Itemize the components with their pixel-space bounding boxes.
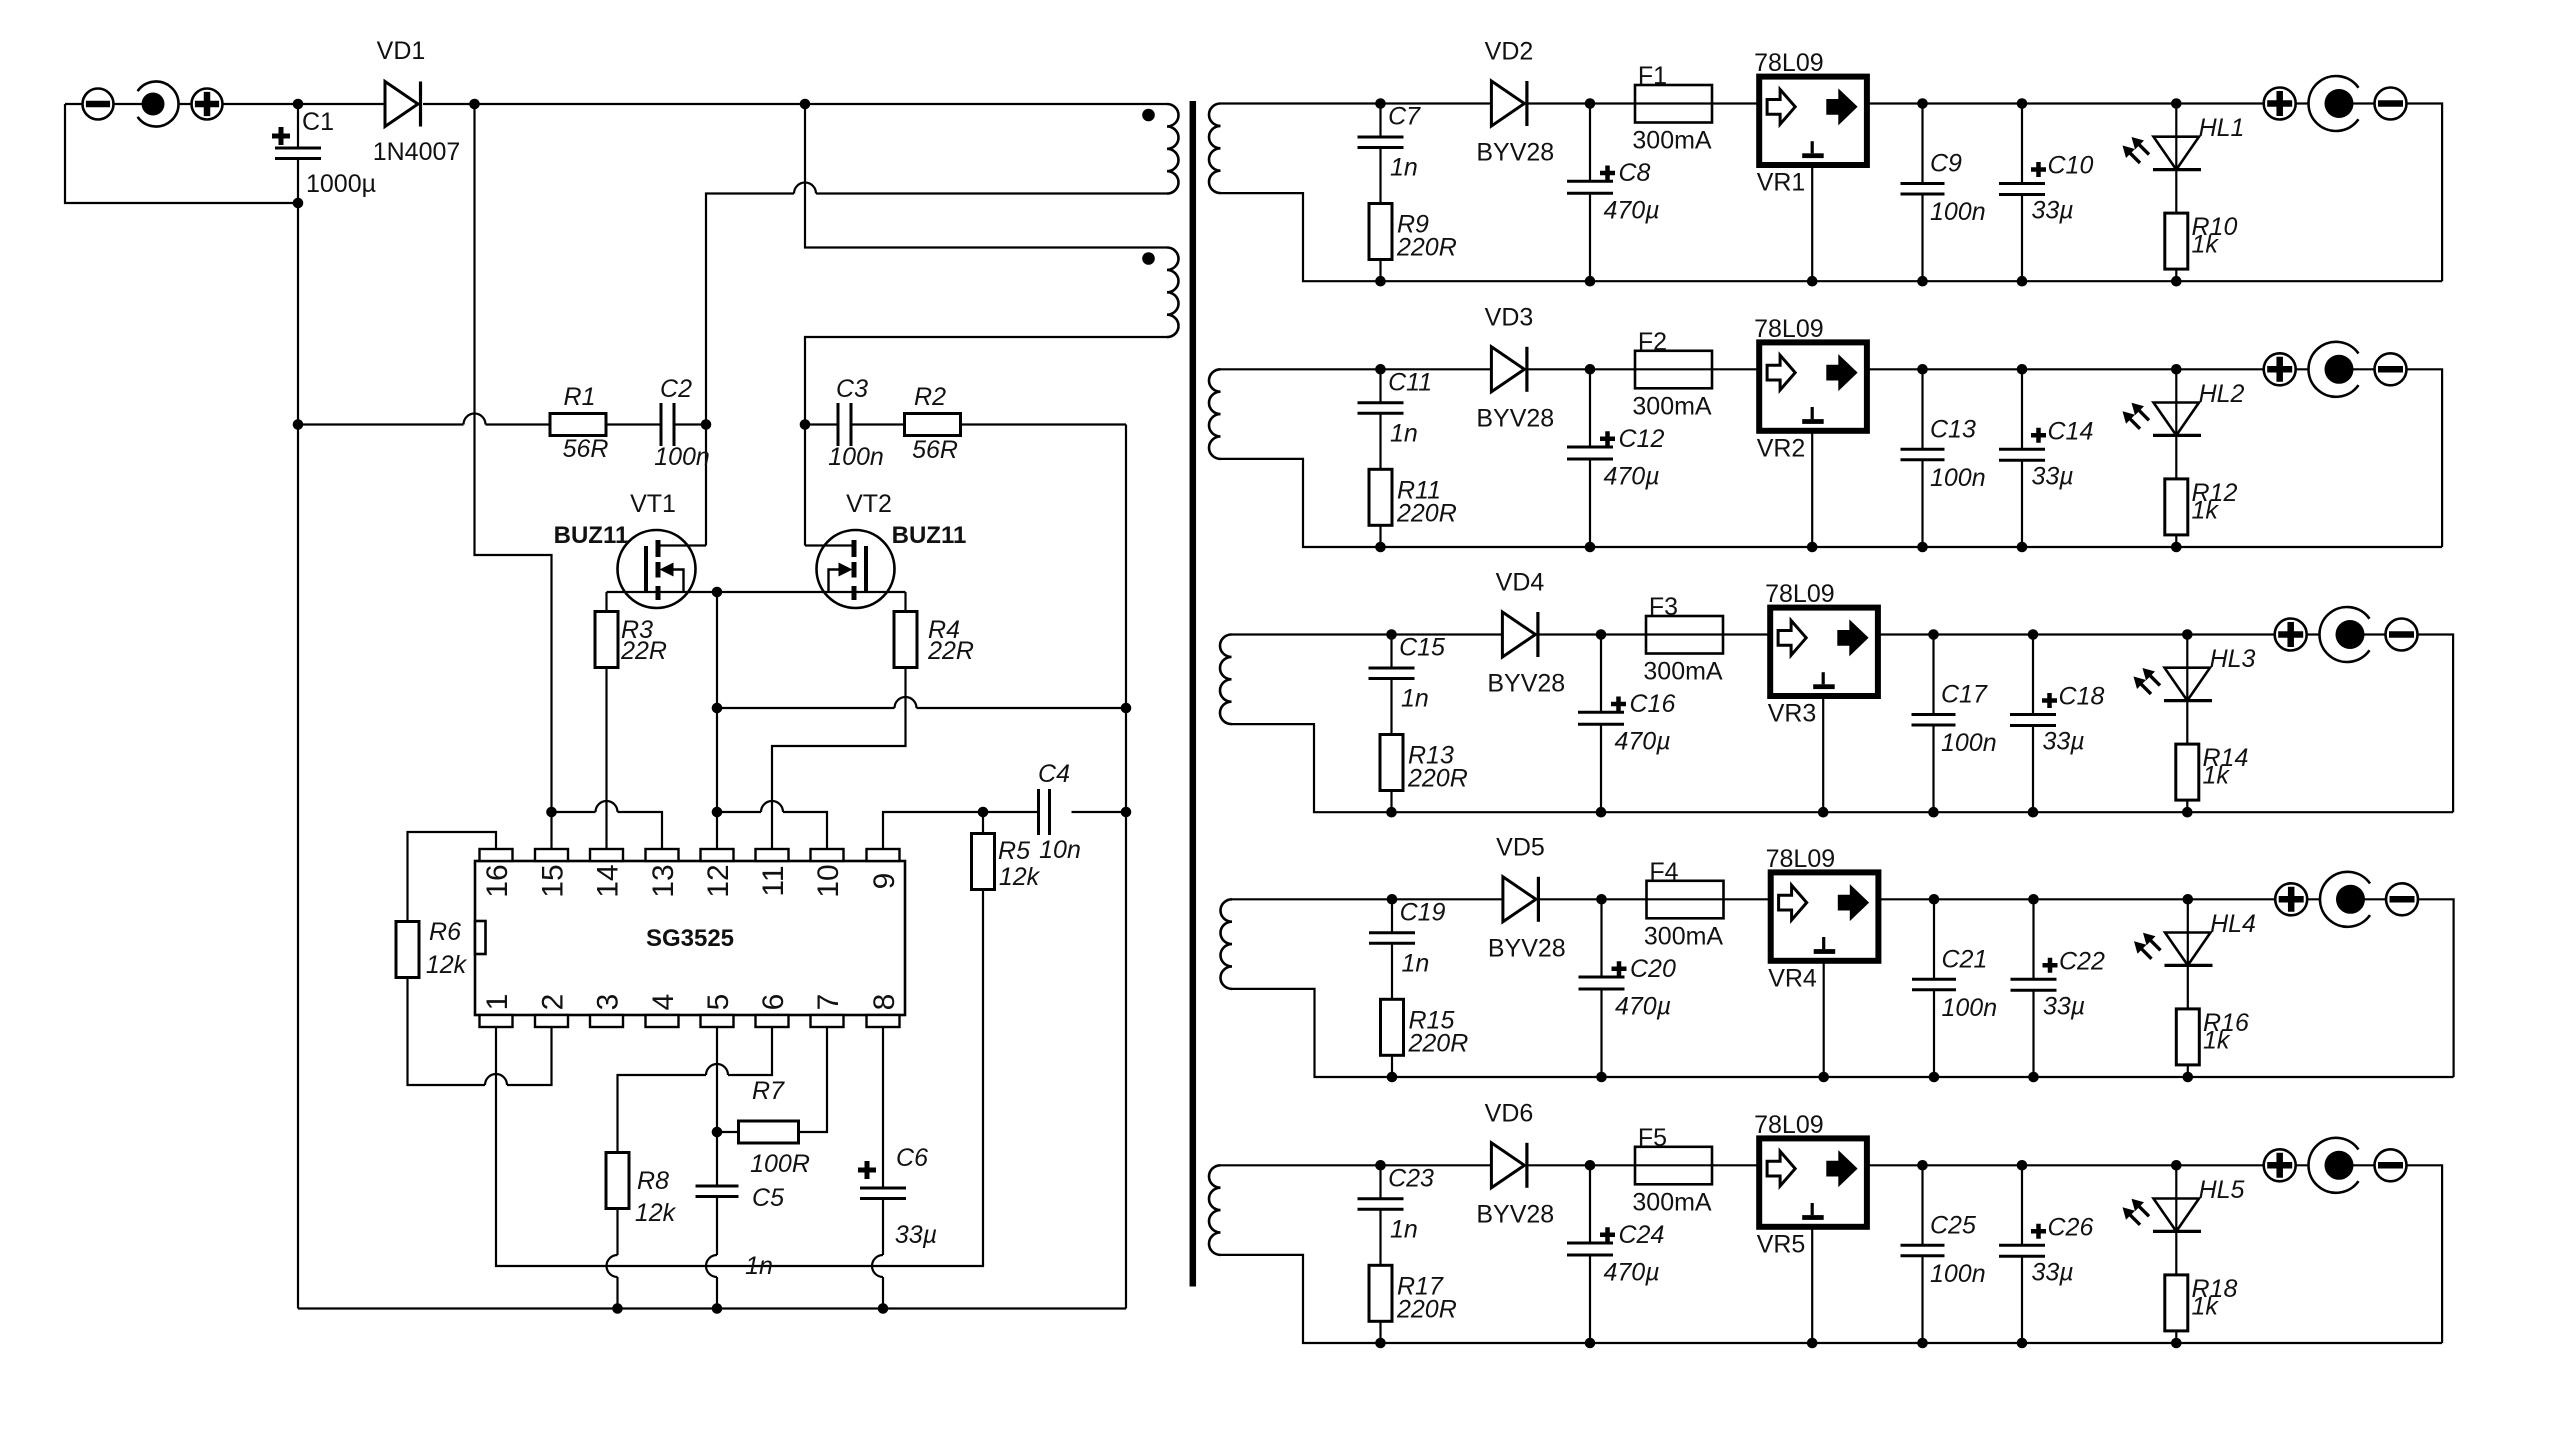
LED HL5 [2175,1165,2177,1275]
svg-text:1k: 1k [2192,496,2220,524]
svg-text:3: 3 [592,994,625,1011]
wire C3 to VT2 drain node [805,423,1126,425]
connector output 2 barrel [2308,342,2358,397]
IC notch [475,921,486,954]
fuse F4 300mA [1647,881,1724,919]
node HL1 top [2171,98,2182,109]
wire R4 to pin 11 [772,668,906,850]
svg-text:78L09: 78L09 [1766,845,1836,873]
svg-text:10n: 10n [1039,836,1081,864]
node C14 top [2017,364,2028,375]
svg-text:C26: C26 [2048,1213,2094,1241]
capacitor C2 100n [661,403,674,446]
svg-text:2: 2 [537,994,570,1011]
svg-text:300mA: 300mA [1643,658,1723,686]
svg-text:470µ: 470µ [1604,1258,1660,1286]
wire R10 bottom [2175,269,2177,281]
capacitor C16 470u [1600,635,1602,813]
resistor R8 12k [606,1153,629,1209]
phase dot primary 1 [1142,109,1155,122]
hop R6 wire over pin1 lead [485,1074,507,1085]
wire R3 to pin 14 [605,668,607,850]
connector output 1 minus [2375,88,2407,120]
svg-text:C20: C20 [1630,955,1676,983]
transformer T1 secondary winding 4 [1221,899,1233,989]
diode VD2 BYV28 [1491,81,1524,126]
capacitor C9 100n [1921,104,1923,282]
LED HL3 [2186,635,2188,745]
node R17 bottom [1375,1338,1386,1349]
svg-text:1n: 1n [1402,949,1430,977]
connector output 5 plus [2264,1149,2296,1181]
svg-text:56R: 56R [912,436,958,464]
node C21 bottom [1929,1072,1940,1083]
wire R16 bottom [2187,1065,2189,1077]
capacitor C18 33u [2032,635,2034,813]
diode VD3 BYV28 [1491,347,1524,392]
svg-text:F1: F1 [1638,62,1667,90]
svg-text:33µ: 33µ [895,1221,937,1249]
resistor R7 100R [717,1027,827,1132]
node C11 top [1375,364,1386,375]
node C16 top [1596,629,1607,640]
node C22 bottom [2028,1072,2039,1083]
node R16 bottom [2183,1072,2194,1083]
wire channel 3 winding return [1232,724,1392,812]
svg-text:300mA: 300mA [1632,392,1712,420]
connector output 3 barrel [2319,607,2369,662]
capacitor C11 1n [1379,369,1381,469]
svg-text:R5: R5 [998,837,1030,865]
connector X1 barrel jack [138,82,179,127]
svg-text:78L09: 78L09 [1765,580,1835,608]
node VR2 ground [1807,542,1818,553]
capacitor C24 470u [1589,1165,1591,1343]
regulator VR5 78L09 [1759,1138,1867,1226]
hop R8 lead over pin1 wire [607,1255,618,1277]
wire R8 bottom to ground rail [616,1209,618,1309]
svg-text:33µ: 33µ [2043,728,2085,756]
node C10 bottom [2017,276,2028,287]
node C18 bottom [2028,807,2039,818]
svg-text:8: 8 [868,994,901,1011]
svg-text:C17: C17 [1941,681,1988,709]
svg-text:VD3: VD3 [1485,303,1534,331]
connector output 2 minus [2375,353,2407,385]
wire R18 bottom [2175,1331,2177,1343]
wire snubber row left [298,423,706,425]
wire channel 5 top rail [1221,1165,2443,1343]
svg-text:15: 15 [537,864,570,897]
capacitor C17 100n [1932,635,1934,813]
LED HL2 [2175,369,2177,479]
node C14 bottom [2017,542,2028,553]
wire VT2 drain lead [805,544,852,546]
svg-text:33µ: 33µ [2032,1258,2074,1286]
svg-text:HL1: HL1 [2199,114,2245,142]
wire VR1 ground pin [1811,168,1813,282]
wire R11 bottom [1379,525,1381,547]
wire VR2 ground pin [1811,433,1813,547]
wire channel 2 winding return [1221,459,1381,547]
IC top pin stubs [480,849,513,861]
hop C5 lead over pin1 wire [706,1255,717,1277]
resistor R11 220R [1369,469,1392,525]
wire ground to pin12 and pin10 [717,812,827,849]
svg-text:F4: F4 [1649,858,1678,886]
svg-text:R8: R8 [637,1167,669,1195]
svg-text:1n: 1n [1390,419,1418,447]
node R12 bottom [2171,542,2182,553]
node pin15 [546,807,557,818]
capacitor C4 10n [1039,789,1050,835]
IC U1 SG3525 body [475,861,905,1015]
node C17 bottom [1928,807,1939,818]
svg-text:F3: F3 [1649,593,1678,621]
svg-text:SG3525: SG3525 [646,925,734,952]
svg-text:1n: 1n [1390,1215,1418,1243]
node C13 bottom [1917,542,1928,553]
svg-text:220R: 220R [1408,1029,1469,1057]
node R9 bottom [1375,276,1386,287]
svg-text:VR2: VR2 [1757,434,1806,462]
svg-text:1: 1 [481,994,514,1011]
svg-text:78L09: 78L09 [1754,49,1824,77]
svg-text:1k: 1k [2192,1292,2220,1320]
svg-text:VT2: VT2 [846,490,892,518]
transformer T1 primary winding 1 [1167,104,1179,194]
regulator VR3 78L09 [1770,608,1878,696]
resistor R13 220R [1380,735,1403,791]
capacitor C19 1n [1391,899,1393,999]
transformer T1 secondary winding 2 [1209,369,1221,459]
capacitor C7 1n [1379,104,1381,204]
wire ground rail left [297,203,299,1309]
svg-text:VD2: VD2 [1485,38,1534,66]
svg-text:220R: 220R [1396,1295,1457,1323]
node C7 top [1375,98,1386,109]
node C23 top [1375,1160,1386,1171]
node R7 tap [712,1127,723,1138]
svg-text:22R: 22R [927,637,974,665]
diode VD1 1N4007 [385,82,418,127]
node R11 bottom [1375,542,1386,553]
svg-text:470µ: 470µ [1604,197,1660,225]
svg-text:BUZ11: BUZ11 [554,522,629,549]
svg-text:220R: 220R [1396,499,1457,527]
diode VD5 BYV28 [1503,877,1536,922]
connector output 5 minus [2375,1149,2407,1181]
svg-text:1n: 1n [745,1252,773,1280]
node C25 bottom [1917,1338,1928,1349]
wire input negative return [65,104,298,203]
svg-text:16: 16 [481,864,514,897]
resistor R3 22R [595,612,618,668]
node C17 top [1928,629,1939,640]
wire channel 3 top rail [1232,635,2454,813]
svg-text:C6: C6 [896,1144,928,1172]
capacitor C14 33u [2021,369,2023,547]
svg-text:12k: 12k [426,951,468,979]
node C15 top [1386,629,1397,640]
capacitor C5 1n [696,1186,739,1197]
wire R17 bottom [1379,1321,1381,1343]
node C21 top [1929,894,1940,905]
svg-text:1n: 1n [1401,685,1429,713]
wire pin5 to C5 [716,1027,718,1186]
svg-text:1k: 1k [2203,762,2231,790]
capacitor C21 100n [1933,899,1935,1077]
wire channel 2 top rail [1221,369,2443,547]
node R15 bottom [1387,1072,1398,1083]
connector output 3 minus [2386,619,2418,651]
capacitor C6 33u [860,1188,906,1199]
node C25 top [1917,1160,1928,1171]
resistor R9 220R [1369,204,1392,260]
svg-text:1k: 1k [2203,1026,2231,1054]
fuse F3 300mA [1646,616,1723,654]
wire primary1 bottom to VT1 drain [706,194,1167,546]
svg-text:C15: C15 [1399,634,1445,662]
connector output 2 plus [2264,353,2296,385]
capacitor C10 33u [2021,104,2023,282]
svg-text:VR5: VR5 [1757,1230,1806,1258]
connector output 1 barrel [2308,76,2358,131]
node HL5 top [2171,1160,2182,1171]
node ground cross left [712,703,723,714]
svg-text:13: 13 [647,864,680,897]
svg-text:300mA: 300mA [1632,1188,1712,1216]
svg-text:33µ: 33µ [2032,197,2074,225]
svg-text:BYV28: BYV28 [1487,670,1565,698]
svg-text:C19: C19 [1400,898,1446,926]
svg-text:C14: C14 [2048,417,2094,445]
svg-text:1k: 1k [2192,231,2220,259]
regulator VR1 78L09 [1759,77,1867,165]
node R13 bottom [1386,807,1397,818]
svg-text:R1: R1 [564,383,596,411]
svg-text:VD6: VD6 [1485,1099,1534,1127]
wire source down to ground net [716,592,718,812]
node C12 top [1585,364,1596,375]
svg-text:C10: C10 [2048,152,2094,180]
svg-text:100n: 100n [828,443,884,471]
capacitor C25 100n [1921,1165,1923,1343]
fuse F1 300mA [1635,85,1712,123]
node sources [712,587,723,598]
svg-text:C23: C23 [1388,1164,1434,1192]
svg-text:5: 5 [702,994,735,1011]
LED HL1 [2175,104,2177,214]
svg-text:300mA: 300mA [1644,922,1724,950]
node C18 top [2028,629,2039,640]
svg-text:C8: C8 [1619,159,1651,187]
node C1 bottom [293,198,304,209]
wire R12 bottom [2175,535,2177,547]
hop C6 lead over pin1 wire [872,1255,883,1277]
connector output 5 barrel [2308,1138,2358,1193]
svg-text:1000µ: 1000µ [306,170,376,198]
node R18 bottom [2171,1338,2182,1349]
wire VCC to IC pin15 [475,104,552,812]
svg-text:BUZ11: BUZ11 [892,522,967,549]
wire R13 bottom [1390,791,1392,813]
svg-text:100n: 100n [654,443,710,471]
svg-text:F5: F5 [1638,1124,1667,1152]
hop primary1 bottom over centre feed [794,183,816,194]
node C9 bottom [1917,276,1928,287]
svg-text:C16: C16 [1630,690,1676,718]
hop ground cross over R4 lead [895,697,917,708]
svg-text:R2: R2 [914,383,946,411]
fuse F2 300mA [1635,351,1712,389]
node R14 bottom [2182,807,2193,818]
svg-text:VR4: VR4 [1768,964,1817,992]
node C24 top [1585,1160,1596,1171]
hop pin10 wire over pin11 lead [761,801,783,812]
wire channel 5 ground rail [1381,1342,2443,1344]
wire channel 1 ground rail [1381,280,2443,282]
wire R15 bottom [1391,1055,1393,1077]
svg-text:9: 9 [868,873,901,890]
wire pin15 feed [552,812,663,849]
IC bottom pin stubs [480,1015,513,1027]
capacitor C1 1000u [297,104,299,203]
capacitor C26 33u [2021,1165,2023,1343]
resistor R15 220R [1381,999,1404,1055]
svg-text:C22: C22 [2059,947,2105,975]
wire pin8 to C6 [882,1027,884,1188]
node after VD1 [469,99,480,110]
node C26 bottom [2017,1338,2028,1349]
wire VT2 source row [717,592,906,612]
node C16 bottom [1596,807,1607,818]
wire VT1 gate-source row [607,592,718,612]
svg-text:C1: C1 [302,108,334,136]
svg-text:C3: C3 [836,375,868,403]
resistor R6 12k [408,832,497,922]
svg-text:4: 4 [647,994,680,1011]
svg-text:220R: 220R [1407,765,1468,793]
svg-text:33µ: 33µ [2032,462,2074,490]
resistor R4 22R [894,612,917,668]
node ground cross right [1121,703,1132,714]
wire channel 1 winding return [1221,193,1381,281]
diode VD6 BYV28 [1491,1143,1524,1188]
connector X1 plus terminal [192,89,223,120]
phase dot primary 2 [1142,252,1155,265]
node C8 top [1585,98,1596,109]
node VR4 ground [1818,1072,1829,1083]
svg-text:470µ: 470µ [1615,992,1671,1020]
svg-text:12k: 12k [635,1199,677,1227]
connector X1 minus terminal [83,89,114,120]
node VR5 ground [1807,1338,1818,1349]
wire VR4 ground pin [1823,963,1825,1077]
hop pin13 wire over R3 lead [596,801,618,812]
resistor R10 1k [2165,213,2188,269]
wire C6 bottom to ground rail [882,1199,884,1309]
svg-text:VD1: VD1 [377,37,426,65]
wire VT1 drain lead [660,544,706,546]
capacitor C15 1n [1390,635,1392,735]
node VR3 ground [1818,807,1829,818]
regulator VR4 78L09 [1771,872,1879,960]
capacitor C23 1n [1379,1165,1381,1265]
svg-text:78L09: 78L09 [1754,315,1824,343]
node VR1 ground [1807,276,1818,287]
node C12 bottom [1585,542,1596,553]
svg-text:33µ: 33µ [2043,992,2085,1020]
fuse F5 300mA [1635,1147,1712,1185]
svg-text:VR3: VR3 [1768,700,1817,728]
svg-text:100n: 100n [1930,198,1986,226]
svg-text:10: 10 [812,864,845,897]
connector output 1 plus [2264,88,2296,120]
svg-text:C24: C24 [1619,1221,1665,1249]
hop pin6 wire over pin5 lead [706,1064,728,1075]
svg-text:100n: 100n [1930,464,1986,492]
svg-text:C25: C25 [1930,1211,1976,1239]
resistor R1 56R [550,414,606,436]
svg-text:HL5: HL5 [2199,1176,2245,1204]
node HL3 top [2182,629,2193,640]
node C19 top [1387,894,1398,905]
svg-text:C21: C21 [1942,945,1988,973]
svg-text:R7: R7 [752,1077,785,1105]
diode VD4 BYV28 [1502,612,1535,657]
hop snubber row over VCC line [464,414,486,425]
svg-text:14: 14 [592,864,625,897]
svg-text:78L09: 78L09 [1754,1111,1824,1139]
resistor R14 1k [2176,744,2199,800]
capacitor C20 470u [1600,899,1602,1077]
svg-text:R6: R6 [429,918,461,946]
wire ground cross to R2 return [717,707,1126,709]
wire primary2 bottom to VT2 drain [805,337,1167,546]
resistor R18 1k [2165,1275,2188,1331]
node VT1 drain net [701,419,712,430]
connector output 3 plus [2275,619,2307,651]
resistor R16 1k [2176,1009,2199,1065]
svg-text:300mA: 300mA [1632,127,1712,155]
node C13 top [1917,364,1928,375]
transformer T1 secondary winding 5 [1209,1165,1221,1255]
connector output 4 plus [2275,883,2307,915]
transformer T1 primary winding 2 [1167,248,1179,338]
svg-text:BYV28: BYV28 [1476,139,1554,167]
transistor VT2 BUZ11 [817,530,895,608]
svg-text:100n: 100n [1941,729,1997,757]
capacitor C8 470u [1589,104,1591,282]
svg-text:BYV28: BYV28 [1476,1200,1554,1228]
svg-text:F2: F2 [1638,328,1667,356]
resistor R2 56R [905,414,961,436]
wire R2 return vertical [1125,425,1127,1309]
svg-text:6: 6 [757,994,790,1011]
capacitor C12 470u [1589,369,1591,547]
svg-text:1N4007: 1N4007 [373,138,461,166]
svg-text:BYV28: BYV28 [1488,934,1566,962]
svg-text:100R: 100R [750,1150,810,1178]
wire input top rail [65,103,1167,105]
svg-text:11: 11 [757,865,790,896]
svg-text:12k: 12k [999,863,1041,891]
svg-text:C2: C2 [660,375,692,403]
svg-text:C7: C7 [1388,103,1421,131]
svg-text:C18: C18 [2059,683,2105,711]
node HL4 top [2183,894,2194,905]
